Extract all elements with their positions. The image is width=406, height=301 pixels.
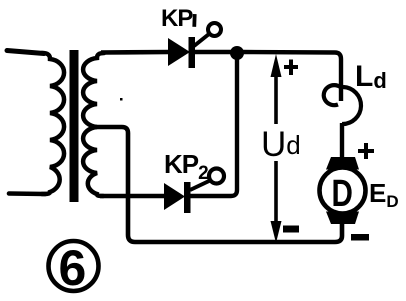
- thyristor KP1 cathode bar: [189, 37, 196, 68]
- wire secondary top terminal to KP1 anode: [101, 50, 169, 55]
- thyristor KP2 anode triangle: [164, 183, 185, 210]
- label + (motor polarity): [358, 143, 374, 159]
- voltage arrow Ud down arrowhead: [271, 221, 282, 243]
- svg-text:KP: KP: [161, 5, 193, 32]
- svg-text:Ud: Ud: [261, 125, 301, 164]
- motor M1 bottom brush: [326, 212, 359, 225]
- wire secondary bottom terminal to KP2 anode: [100, 194, 165, 198]
- wire common cathode vertical (dot to KP2): [190, 58, 237, 196]
- transformer T1 secondary winding: [83, 53, 104, 196]
- thyristor KP1 gate terminal circle: [208, 23, 221, 36]
- voltage arrow Ud lower shaft: [274, 161, 278, 226]
- svg-text:KP2: KP2: [164, 149, 208, 184]
- thyristor KP1 anode triangle: [168, 38, 190, 66]
- thyristor KP2 gate lead: [190, 181, 209, 190]
- wire Ld to motor: [340, 123, 344, 158]
- svg-text:ED: ED: [369, 178, 399, 211]
- figure number circle 6: [49, 241, 99, 291]
- voltage arrow Ud up arrowhead: [271, 54, 282, 77]
- svg-text:D: D: [332, 173, 353, 215]
- label + (Ud top polarity): [284, 60, 298, 76]
- inductor Ld loop: [324, 85, 341, 105]
- voltage arrow Ud upper shaft: [274, 72, 278, 124]
- transformer core: [70, 50, 79, 202]
- motor M1 body circle: [320, 168, 366, 214]
- svg-text:6: 6: [59, 240, 87, 296]
- wire KP1 cathode to junction: [195, 50, 232, 54]
- transformer T1 primary winding: [42, 53, 64, 194]
- junction node dot: [230, 46, 244, 60]
- thyristor KP1 gate lead: [194, 34, 209, 46]
- label - (motor polarity): [351, 234, 369, 241]
- thyristor KP2 cathode bar: [184, 182, 191, 213]
- wire junction to Ld corner: [243, 52, 341, 101]
- thyristor KP2 gate terminal circle: [209, 169, 224, 184]
- wire secondary center tap to bottom rail and motor: [95, 127, 342, 242]
- motor M1 top brush: [326, 157, 359, 170]
- wire primary bottom lead: [9, 191, 45, 196]
- label - (Ud bottom polarity): [283, 226, 299, 233]
- svg-text:Ld: Ld: [355, 60, 387, 93]
- wire primary top lead: [7, 51, 44, 54]
- ink speck: [120, 98, 123, 101]
